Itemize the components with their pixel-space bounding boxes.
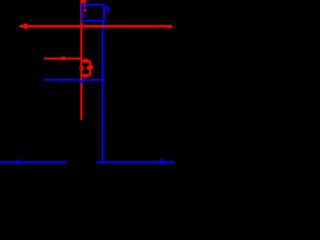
red loop right segment [89, 61, 91, 75]
octagon dot on loop bottom [83, 74, 87, 78]
octagon dot on loop top [84, 59, 88, 63]
red main horizontal line [20, 25, 173, 27]
hook terminal on right of box B1 [105, 8, 109, 13]
red vertical wire [80, 0, 82, 120]
blue hop dip overlay (over red wire) [78, 80, 84, 82]
question-mark dot [84, 9, 87, 12]
red loop top segment [81, 60, 90, 62]
octagon blob on loop right [87, 65, 94, 70]
red arrowhead left end (points left) [19, 23, 28, 29]
arrow on bottom rail left (points right) [17, 159, 21, 165]
wire: bottom rail right segment [96, 161, 175, 163]
donut diamond on red wire (left of loop) [79, 65, 85, 71]
square dot on red mid line [62, 57, 66, 61]
wire: bottom rail left segment [0, 161, 67, 163]
donut hole [80, 68, 82, 70]
arrow on bottom rail right (points left) [158, 158, 163, 165]
red mid horizontal line [44, 57, 81, 59]
red tick at right end of main line [169, 26, 171, 28]
question-mark hook at top of red wire [81, 1, 84, 7]
wire: blue vertical from box to bottom rail [102, 21, 104, 163]
red loop bottom segment [81, 74, 90, 76]
wire: blue mid horizontal with hop dip at red wire crossing [44, 80, 103, 82]
arrow on blue mid wire (points right) [62, 77, 66, 82]
component box B1 (blue rectangle, top) [82, 5, 104, 21]
